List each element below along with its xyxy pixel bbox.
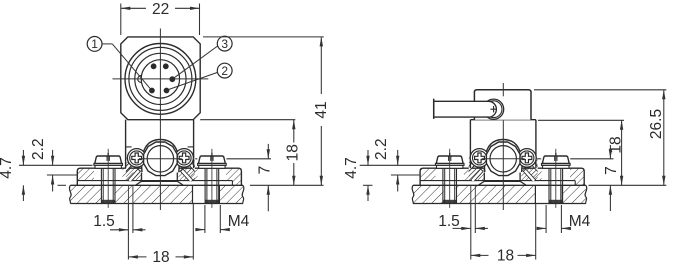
arm end cap: [433, 99, 435, 119]
1.5 arrow tail right: [133, 229, 146, 231]
swivel ring inner: [485, 101, 502, 118]
dim 4.7 side upper: [367, 150, 369, 165]
ext 18 right side: [535, 204, 537, 260]
ext line top (41): [203, 36, 324, 38]
arrow M4 side right: [561, 227, 571, 230]
1.5 side tail left: [453, 227, 471, 229]
arrow 1.5 side left: [461, 227, 471, 230]
screw axis right (front view): [211, 149, 213, 208]
arrow 2.2 side bottom: [396, 175, 399, 185]
arrow 4.7 bottom: [22, 185, 25, 195]
arrow 18 side right: [526, 254, 536, 257]
arrow 22 right: [190, 7, 200, 10]
svg-text:1.5: 1.5: [438, 213, 460, 230]
ext line block top: [534, 89, 666, 91]
upper block outline: [474, 90, 531, 120]
arrow 18 side top: [620, 120, 623, 130]
valve mounting flange (section, hatched): [420, 168, 584, 185]
arrow 26.5 bottom: [662, 176, 665, 186]
slotted mounting screw right: [542, 163, 571, 165]
gasket strip under flange: [420, 180, 575, 182]
elbow cable connector: [434, 99, 504, 120]
arrow 1.5 right: [133, 228, 143, 231]
boss horizontal centerline: [139, 158, 182, 160]
svg-text:7: 7: [603, 166, 620, 175]
neck left edge: [125, 120, 127, 169]
ext line plate top (right view): [589, 184, 667, 186]
neck right edge: [193, 120, 195, 169]
leader 1 diagonal: [112, 44, 151, 89]
arrow M4 left: [195, 228, 205, 231]
svg-text:26.5: 26.5: [648, 109, 665, 139]
arrow 7 bottom: [267, 185, 270, 195]
arrow 18 right: [184, 255, 194, 258]
dim line 7 lower: [267, 185, 269, 211]
ref line B: [47, 174, 77, 176]
mounting screw shaft left: [100, 168, 102, 203]
phillips screw left (front): [127, 149, 146, 168]
ext M4 right side: [560, 205, 562, 233]
svg-text:2: 2: [221, 64, 228, 78]
dim line 7 side lower: [609, 185, 611, 211]
arrow 18 side left: [471, 254, 481, 257]
arrow 18 bottom: [292, 176, 295, 186]
ext port left side: [470, 204, 472, 260]
central boss dodecagon (side): [486, 142, 520, 176]
arrow 41 top: [320, 37, 323, 47]
base plate (section, hatched, broken ends): [70, 185, 102, 203]
dim line 18 side: [621, 120, 623, 185]
connector face circle 2: [129, 47, 192, 110]
ext line 22 left: [120, 4, 122, 36]
base plate (section, hatched, broken ends): [413, 185, 444, 203]
ref line A: [19, 164, 93, 166]
mounting screw shaft left: [442, 168, 444, 203]
slotted mounting screw left: [94, 163, 123, 165]
dim line 2.2 upper: [52, 150, 54, 165]
leader 2 diagonal: [168, 72, 217, 89]
mounting screw shaft right: [204, 168, 206, 203]
bubble 1: [87, 37, 102, 52]
arrow 4.7 side bottom: [366, 185, 369, 195]
ref line 7 b: [226, 158, 271, 160]
leader 3 diagonal: [174, 46, 218, 78]
dim 4.7 side lower: [367, 185, 369, 201]
1.5 arrow tail left: [110, 229, 128, 231]
phillips screw right (front): [175, 149, 194, 168]
ref dash plate top side: [363, 184, 373, 186]
arrow 18 top: [292, 120, 295, 130]
dim line 41 lower: [320, 126, 322, 185]
arrow 2.2 bottom: [51, 175, 54, 185]
pin top-right: [163, 63, 169, 69]
arrow 7 side bottom: [609, 185, 612, 195]
mounting screw shaft right: [548, 168, 550, 203]
dim line 18 a: [128, 256, 146, 258]
1.5 side tail right: [475, 227, 488, 229]
ext M4 left side: [545, 205, 547, 233]
dim 2.2 side upper: [397, 150, 399, 165]
threaded hole edges in plate: [192, 185, 194, 203]
neck step mark right: [188, 146, 194, 148]
svg-text:18: 18: [152, 249, 169, 266]
svg-text:22: 22: [152, 1, 169, 18]
svg-text:2.2: 2.2: [30, 138, 47, 160]
svg-text:M4: M4: [569, 213, 591, 230]
dim line 7 upper: [267, 144, 269, 159]
centerline vertical (right view): [502, 121, 504, 211]
arrow 2.2 side top: [396, 156, 399, 166]
pin 1 (bottom-left): [149, 88, 155, 94]
swivel ring outer: [484, 99, 504, 119]
valve port mouth: [479, 173, 526, 186]
M4 tail right: [220, 229, 228, 231]
svg-text:1: 1: [91, 37, 98, 51]
pin bottom-right: [164, 88, 170, 94]
centerline tick above block (right view): [502, 83, 504, 96]
arrow 18 side bottom: [620, 176, 623, 186]
arrow M4 side left: [537, 227, 547, 230]
central boss inner (side): [490, 146, 516, 172]
arrow M4 right: [220, 228, 230, 231]
arrow 7 side top: [609, 149, 612, 159]
port edge lines in plate: [127, 185, 129, 203]
ext line plate top right: [250, 184, 324, 186]
connector pin face circle: [141, 60, 179, 98]
ref 7 side b: [570, 158, 613, 160]
dim line 7 side upper: [609, 145, 611, 159]
connector face circle 3: [135, 53, 186, 104]
pin top-left: [151, 63, 157, 69]
svg-text:41: 41: [313, 101, 330, 118]
boss horizontal centerline (side): [482, 158, 525, 160]
central boss inner: [147, 146, 173, 172]
dim line 26.5: [663, 90, 665, 186]
plus mark: [490, 106, 496, 112]
ext line port right: [132, 204, 134, 234]
arrow 26.5 top: [662, 90, 665, 100]
arrow 22 left: [121, 7, 131, 10]
valve mounting flange (section, hatched): [77, 168, 241, 185]
connector housing square: [121, 37, 200, 120]
dim line 22 b: [175, 7, 200, 9]
ext line 18 right: [192, 204, 194, 260]
svg-text:2.2: 2.2: [373, 138, 390, 160]
dim line 4.7 lower: [22, 185, 24, 201]
M4 tail left: [197, 229, 205, 231]
svg-text:M4: M4: [228, 213, 250, 230]
valve body bell outline (side): [484, 140, 522, 173]
svg-text:4.7: 4.7: [0, 157, 15, 179]
arrow 2.2 top: [51, 156, 54, 166]
dim line 4.7 upper: [22, 150, 24, 165]
arrow 41 bottom: [320, 176, 323, 186]
screw axis left (front view): [107, 149, 109, 208]
neck step mark left: [126, 146, 132, 148]
slotted mounting screw right: [198, 163, 227, 165]
dim line 22 a: [121, 7, 146, 9]
arrow 1.5 left: [119, 228, 128, 231]
svg-text:18: 18: [497, 248, 514, 265]
slotted mounting screw left: [435, 163, 464, 165]
face horizontal centerline: [113, 78, 209, 80]
ext port right side: [474, 204, 476, 234]
threaded hole edges in plate: [534, 185, 536, 203]
ref dash plate top: [58, 184, 67, 186]
bubble 2: [217, 63, 232, 78]
svg-text:1.5: 1.5: [93, 213, 115, 230]
M4 side tail right: [561, 227, 569, 229]
body left edge: [469, 120, 471, 169]
arrow 4.7 top: [22, 156, 25, 166]
M4 side tail left: [538, 227, 546, 229]
central boss dodecagon: [144, 142, 178, 176]
dim line 41 upper: [320, 37, 322, 94]
leader 1 horizontal: [102, 43, 112, 45]
body right edge: [535, 120, 537, 169]
arm bar: [434, 101, 489, 117]
pin 2 (right): [169, 76, 175, 82]
ext line port left: [127, 204, 129, 260]
ext line body top (18): [538, 119, 624, 121]
ext line M4 right: [219, 205, 221, 233]
arm cap D-end: [489, 101, 497, 117]
connector face circle outer: [125, 44, 196, 115]
dim line 18 upper: [293, 120, 295, 143]
phillips screw left (side): [470, 149, 489, 168]
valve port mouth: [136, 173, 183, 186]
dim line 18 b: [176, 256, 194, 258]
svg-text:4.7: 4.7: [343, 157, 360, 179]
keyway notch: [138, 76, 141, 83]
arrow 4.7 side top: [366, 156, 369, 166]
ref line A side: [360, 164, 436, 166]
dim line 18 lower: [293, 163, 295, 185]
arrow 1.5 side right: [475, 227, 485, 230]
gasket strip under flange: [77, 180, 232, 182]
screw axis left (side view): [449, 149, 451, 208]
svg-text:18: 18: [285, 144, 302, 161]
port edge lines in plate: [470, 185, 472, 203]
svg-text:7: 7: [257, 166, 274, 175]
ext line M4 left: [204, 205, 206, 233]
arrow 7 top: [267, 149, 270, 159]
dim line 2.2 lower: [52, 175, 54, 192]
dim 18 side a: [471, 254, 489, 256]
ref line B side: [391, 174, 420, 176]
svg-text:3: 3: [221, 37, 228, 51]
body top edge: [470, 119, 536, 121]
arrow 18 left: [128, 255, 138, 258]
dim 18 side b: [518, 254, 536, 256]
ext line square bottom (18): [200, 119, 295, 121]
ext line 22 right: [199, 4, 201, 36]
valve body bell outline: [142, 140, 180, 173]
phillips screw right (side): [518, 149, 537, 168]
screw axis right (side view): [555, 149, 557, 208]
bubble 3: [217, 36, 232, 51]
ref line 7 a: [195, 158, 197, 160]
centerline vertical (left view): [159, 29, 161, 211]
dim 2.2 side lower: [397, 175, 399, 192]
ref 7 side a: [537, 158, 541, 160]
